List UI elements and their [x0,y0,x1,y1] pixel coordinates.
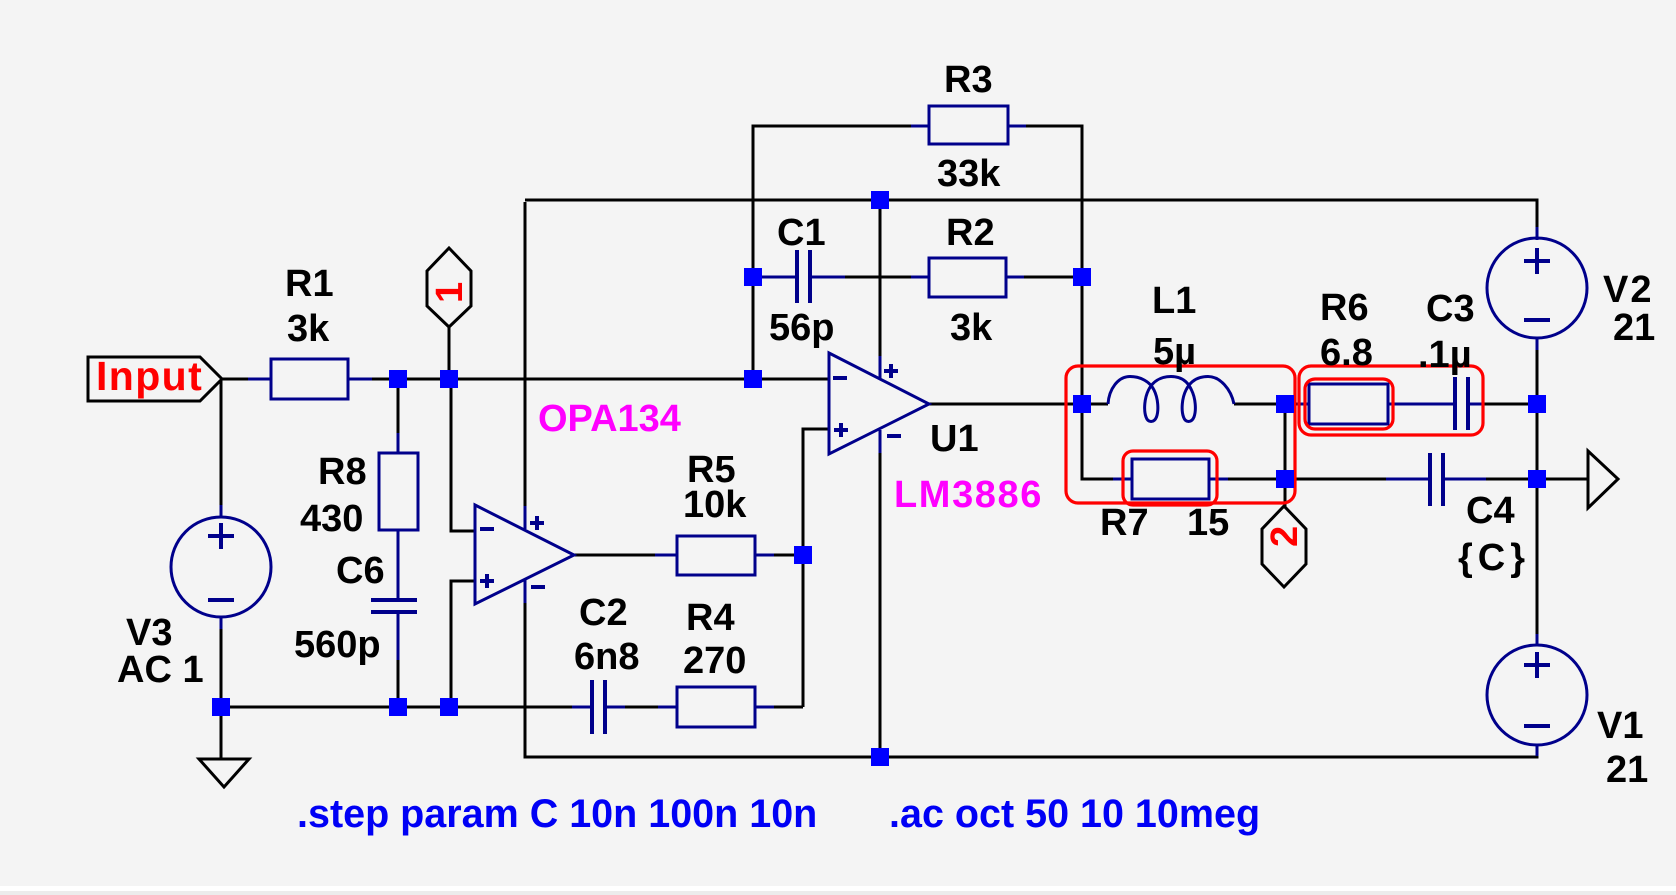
svg-text:AC 1: AC 1 [117,649,204,691]
wire C3 to V2 node [1484,403,1537,406]
wire R3 feedback loop [753,126,1082,404]
resistor R7 [1113,459,1228,499]
red annotation box R6 inner [1305,379,1393,429]
wire opa134 V+ supply [524,202,527,507]
wire U1 + input [803,429,829,555]
output arrow flag [1588,451,1618,508]
wire L1 R7 right vertical [1284,404,1287,479]
capacitor C1 [762,250,845,303]
svg-text:21: 21 [1606,749,1648,791]
svg-text:2: 2 [1264,526,1306,547]
svg-text:C4: C4 [1466,490,1515,532]
resistor R4 [658,687,774,727]
capacitor C3 [1455,377,1484,430]
net flag 1 [427,248,471,327]
input flag [88,353,222,401]
wire output arrow stub [1537,478,1588,481]
red annotation box L1 R7 [1066,366,1295,503]
svg-text:5µ: 5µ [1153,331,1196,373]
svg-text:560p: 560p [294,624,381,666]
svg-text:C1: C1 [777,212,826,254]
node C6 rail [389,698,407,716]
svg-text:33k: 33k [937,153,1001,195]
node V3 ground [212,698,230,716]
svg-text:L1: L1 [1152,280,1196,322]
net flag 2 [1262,506,1306,587]
wire opa134 noninverting input [451,581,474,707]
svg-text:10k: 10k [683,484,747,526]
svg-text:56p: 56p [769,307,834,349]
capacitor C4 [1386,453,1486,506]
wire R8 branch upper [397,379,400,601]
svg-text:R3: R3 [944,59,993,101]
resistor R2 [911,258,1024,297]
node C1 left [744,268,762,286]
resistor R8 [379,433,418,601]
wire R4 R5 vertical [802,555,805,707]
svg-text:C2: C2 [579,592,628,634]
svg-text:3k: 3k [950,307,993,349]
wire flag1 stub [448,327,451,379]
svg-text:21: 21 [1613,307,1655,349]
node opa +input rail [440,698,458,716]
svg-text:V2: V2 [1603,269,1653,311]
node L1 right [1276,395,1294,413]
wire U1 V+ stub [879,200,882,356]
wire opa134 V- supply and bottom power rail [525,603,1537,757]
wire U1 output to L1 [929,403,1108,406]
node U1 V+ rail [871,191,889,209]
node V2 minus [1528,395,1546,413]
wire node to V1 top [1536,479,1539,646]
svg-text:R2: R2 [946,212,995,254]
wire C4 row y=479 [1285,478,1537,481]
svg-text:R4: R4 [686,597,735,639]
svg-text:OPA134: OPA134 [538,398,681,440]
svg-text:Input: Input [96,353,203,399]
red annotation box R6 C3 outer [1299,366,1483,435]
resistor R6 [1297,384,1455,424]
voltage source V2 [1487,227,1587,350]
svg-text:6n8: 6n8 [574,636,639,678]
wire U1 V- stub [879,453,882,757]
wire V2 bottom vertical [1536,339,1539,479]
wire L1 right to junction [1234,403,1299,406]
node flag1 main [440,370,458,388]
svg-text:C3: C3 [1426,288,1475,330]
svg-text:.ac oct 50 10 10meg: .ac oct 50 10 10meg [889,792,1260,836]
node U1 V- rail [871,748,889,766]
node U1 -input [744,370,762,388]
resistor R1 [248,359,372,399]
wire V3 branch top [220,379,223,517]
capacitor C2 [572,680,625,734]
wire opa134 inverting input [451,381,474,531]
svg-text:V3: V3 [126,612,172,654]
wire flag2 stub [1284,479,1287,507]
node R1-R8 [389,370,407,388]
svg-text:6.8: 6.8 [1320,332,1373,374]
wire opa134 output to R5 to node [574,554,803,557]
svg-text:1: 1 [429,282,471,303]
op-amp OPA134 [475,505,574,604]
svg-text:{C}: {C} [1458,537,1530,579]
svg-text:.1µ: .1µ [1418,334,1472,376]
voltage source V3 [171,505,271,629]
node R5 R4 feedback [794,546,812,564]
node output [1528,470,1546,488]
node R7 right [1276,470,1294,488]
resistor R3 [911,106,1026,144]
red annotation box R7 inner [1123,451,1217,505]
svg-text:.step param C 10n 100n 10n: .step param C 10n 100n 10n [297,792,817,836]
wire top power rail y=200 [525,200,1537,239]
node C1 R2 right [1073,268,1091,286]
svg-text:3k: 3k [287,308,330,350]
resistor R5 [655,536,774,575]
wire main input row y=379 [222,378,830,381]
svg-text:R8: R8 [318,451,367,493]
svg-text:R6: R6 [1320,287,1369,329]
op-amp U1 [829,353,929,454]
svg-text:R7: R7 [1100,502,1149,544]
svg-text:270: 270 [683,640,746,682]
capacitor C6 [371,600,417,660]
wire ground rail y=707 [221,706,803,709]
ground [199,707,249,787]
wire C1 R2 row y=277 [753,276,1082,279]
svg-text:V1: V1 [1597,705,1643,747]
svg-text:15: 15 [1187,502,1229,544]
voltage source V1 [1487,634,1587,756]
svg-text:LM3886: LM3886 [894,474,1043,516]
inductor L1 [1108,377,1234,422]
svg-text:R1: R1 [285,263,334,305]
node U1 output [1073,395,1091,413]
svg-text:430: 430 [300,498,363,540]
svg-text:C6: C6 [336,550,385,592]
wire R7 branch [1082,404,1285,479]
svg-text:U1: U1 [930,418,979,460]
wire C6 bottom to rail [397,611,400,707]
wire V3 bottom to ground rail [220,617,223,707]
